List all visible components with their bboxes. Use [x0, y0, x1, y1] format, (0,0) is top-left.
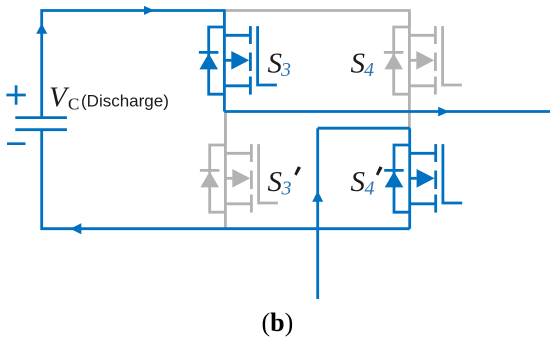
S4 body arrow [409, 59, 416, 62]
svg-text:3: 3 [281, 177, 292, 199]
S3p drain-source vertical [224, 112, 227, 229]
S4 diode cathode bar [384, 51, 404, 54]
S3 channel bar segments [249, 26, 252, 44]
svg-text:3: 3 [280, 59, 291, 81]
S3p diode cathode bar [200, 169, 220, 172]
svg-text:4: 4 [365, 177, 375, 199]
wire: blue top rail and left vertical down to capacitor plus plate [42, 11, 226, 117]
S3 body arrow [224, 59, 231, 62]
S3p source lead [225, 202, 251, 205]
svg-text:(b): (b) [262, 308, 294, 337]
S3p body arrow [225, 177, 232, 180]
svg-text:4: 4 [364, 59, 374, 81]
capacitor VC bottom plate [15, 128, 67, 131]
svg-text:S: S [268, 166, 283, 198]
transistor S4 (gray MOSFET with body diode, top-right) [384, 11, 462, 129]
S4 diode triangle [384, 53, 403, 69]
svg-text:V: V [49, 82, 70, 114]
transistor S3 (blue MOSFET with body diode, top-left) [199, 11, 277, 112]
arrow: right current arrow on mid rail [438, 107, 449, 117]
S3 body diode branch [209, 27, 225, 94]
S4 drain lead [409, 34, 435, 37]
plus sign of capacitor polarity [6, 85, 25, 104]
svg-text:C: C [68, 94, 79, 113]
S4 body diode branch [394, 27, 410, 94]
S4p source lead [410, 202, 436, 205]
S3p diode triangle [200, 171, 219, 187]
S4p drain lead [410, 152, 436, 155]
S4p diode triangle [385, 171, 404, 187]
S3 source lead [224, 84, 250, 87]
S4 gate bar and gate lead [443, 26, 462, 85]
S4p channel bar segments [434, 144, 437, 162]
wire: left vertical from capacitor bottom plate and bottom rail to S4' source [42, 131, 410, 229]
S3p channel bar segments [250, 144, 253, 162]
S4p gate bar and gate lead [443, 144, 462, 203]
arrow: up current arrow on injection wire [312, 191, 323, 202]
S3 drain lead [224, 34, 250, 37]
S3 gate bar and gate lead [258, 26, 277, 85]
arrow: left current arrow on bottom rail [70, 223, 81, 234]
svg-text:(Discharge): (Discharge) [81, 91, 169, 110]
S4 drain-source vertical [408, 11, 411, 129]
wire: gray top rail from S3 drain node over to S4 drain [226, 11, 410, 29]
S3 diode cathode bar [199, 51, 219, 54]
wire: blue injection vertical crossing bottom rail [316, 128, 319, 299]
S4p body diode branch [394, 145, 410, 212]
arrow: up current arrow on left wire [36, 23, 47, 34]
wire: blue injection branch horizontal into S4' drain [318, 127, 410, 130]
wire: blue mid rail (output) from S3 source to right edge [224, 110, 550, 113]
S4 source lead [409, 84, 435, 87]
S4p drain-source vertical [408, 128, 411, 229]
S3p gate bar and gate lead [259, 144, 278, 203]
S3p drain lead [225, 152, 251, 155]
S3 drain-source vertical [223, 11, 226, 112]
capacitor VC top plate [15, 116, 67, 119]
S4p body arrow [410, 177, 417, 180]
S4 channel bar segments [434, 26, 437, 44]
transistor S4' (blue MOSFET with body diode, bottom-right) [384, 128, 462, 229]
arrow: right current arrow on top rail [144, 6, 154, 15]
S4p diode cathode bar [384, 169, 404, 172]
svg-text:S: S [351, 166, 366, 198]
S3 diode triangle [199, 53, 218, 69]
S3p body diode branch [210, 145, 226, 212]
minus sign of capacitor polarity [7, 142, 26, 145]
transistor S3' (gray MOSFET with body diode, bottom-left) [200, 112, 278, 229]
wire: gray S3' drain vertical hanging from mid rail [224, 112, 227, 147]
